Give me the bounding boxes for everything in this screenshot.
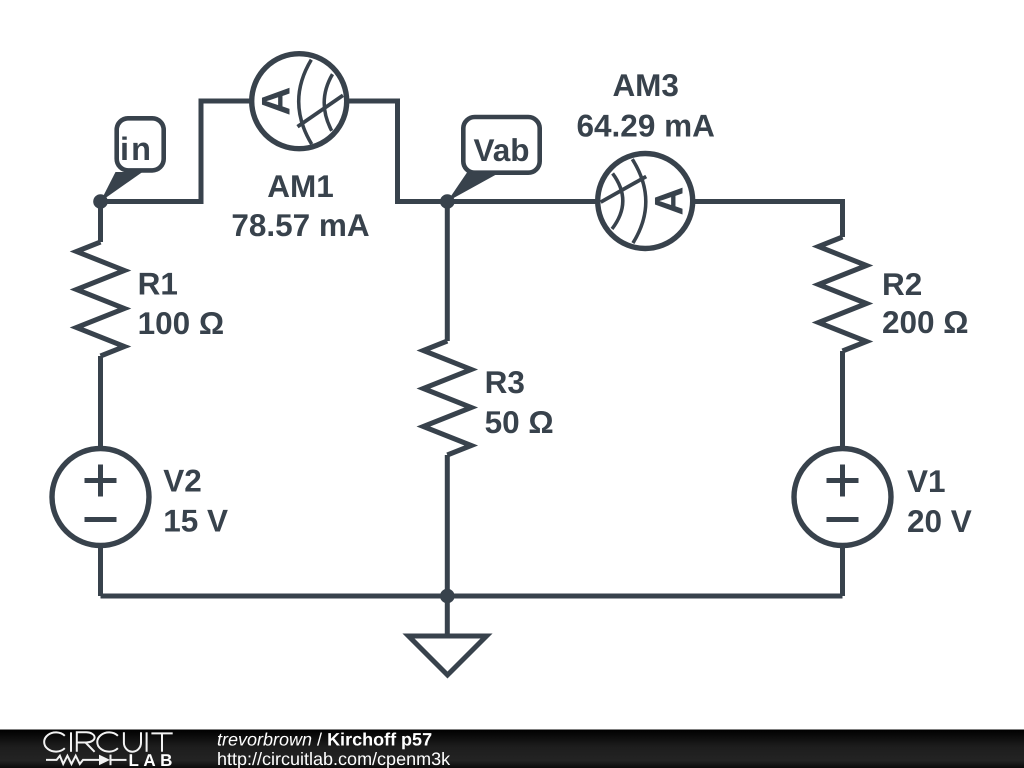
svg-text:http://circuitlab.com/cpenm3k: http://circuitlab.com/cpenm3k: [217, 749, 451, 768]
svg-text:V1: V1: [907, 463, 946, 499]
svg-text:Vab: Vab: [473, 132, 529, 168]
svg-text:V2: V2: [163, 463, 202, 499]
svg-text:R2: R2: [882, 266, 922, 302]
svg-text:20 V: 20 V: [907, 503, 972, 539]
svg-text:50 Ω: 50 Ω: [485, 404, 554, 440]
svg-text:100 Ω: 100 Ω: [138, 305, 225, 341]
svg-text:64.29 mA: 64.29 mA: [577, 108, 715, 144]
svg-text:LAB: LAB: [129, 751, 177, 768]
svg-text:AM1: AM1: [267, 168, 334, 204]
svg-text:A: A: [648, 187, 692, 216]
svg-text:R1: R1: [138, 266, 178, 302]
svg-text:15 V: 15 V: [163, 503, 228, 539]
svg-text:in: in: [120, 131, 153, 167]
svg-text:78.57 mA: 78.57 mA: [231, 207, 369, 243]
svg-text:trevorbrown / Kirchoff p57: trevorbrown / Kirchoff p57: [217, 730, 432, 750]
svg-text:A: A: [254, 87, 298, 116]
svg-text:R3: R3: [485, 364, 525, 400]
svg-text:AM3: AM3: [612, 67, 679, 103]
svg-text:200 Ω: 200 Ω: [882, 304, 969, 340]
